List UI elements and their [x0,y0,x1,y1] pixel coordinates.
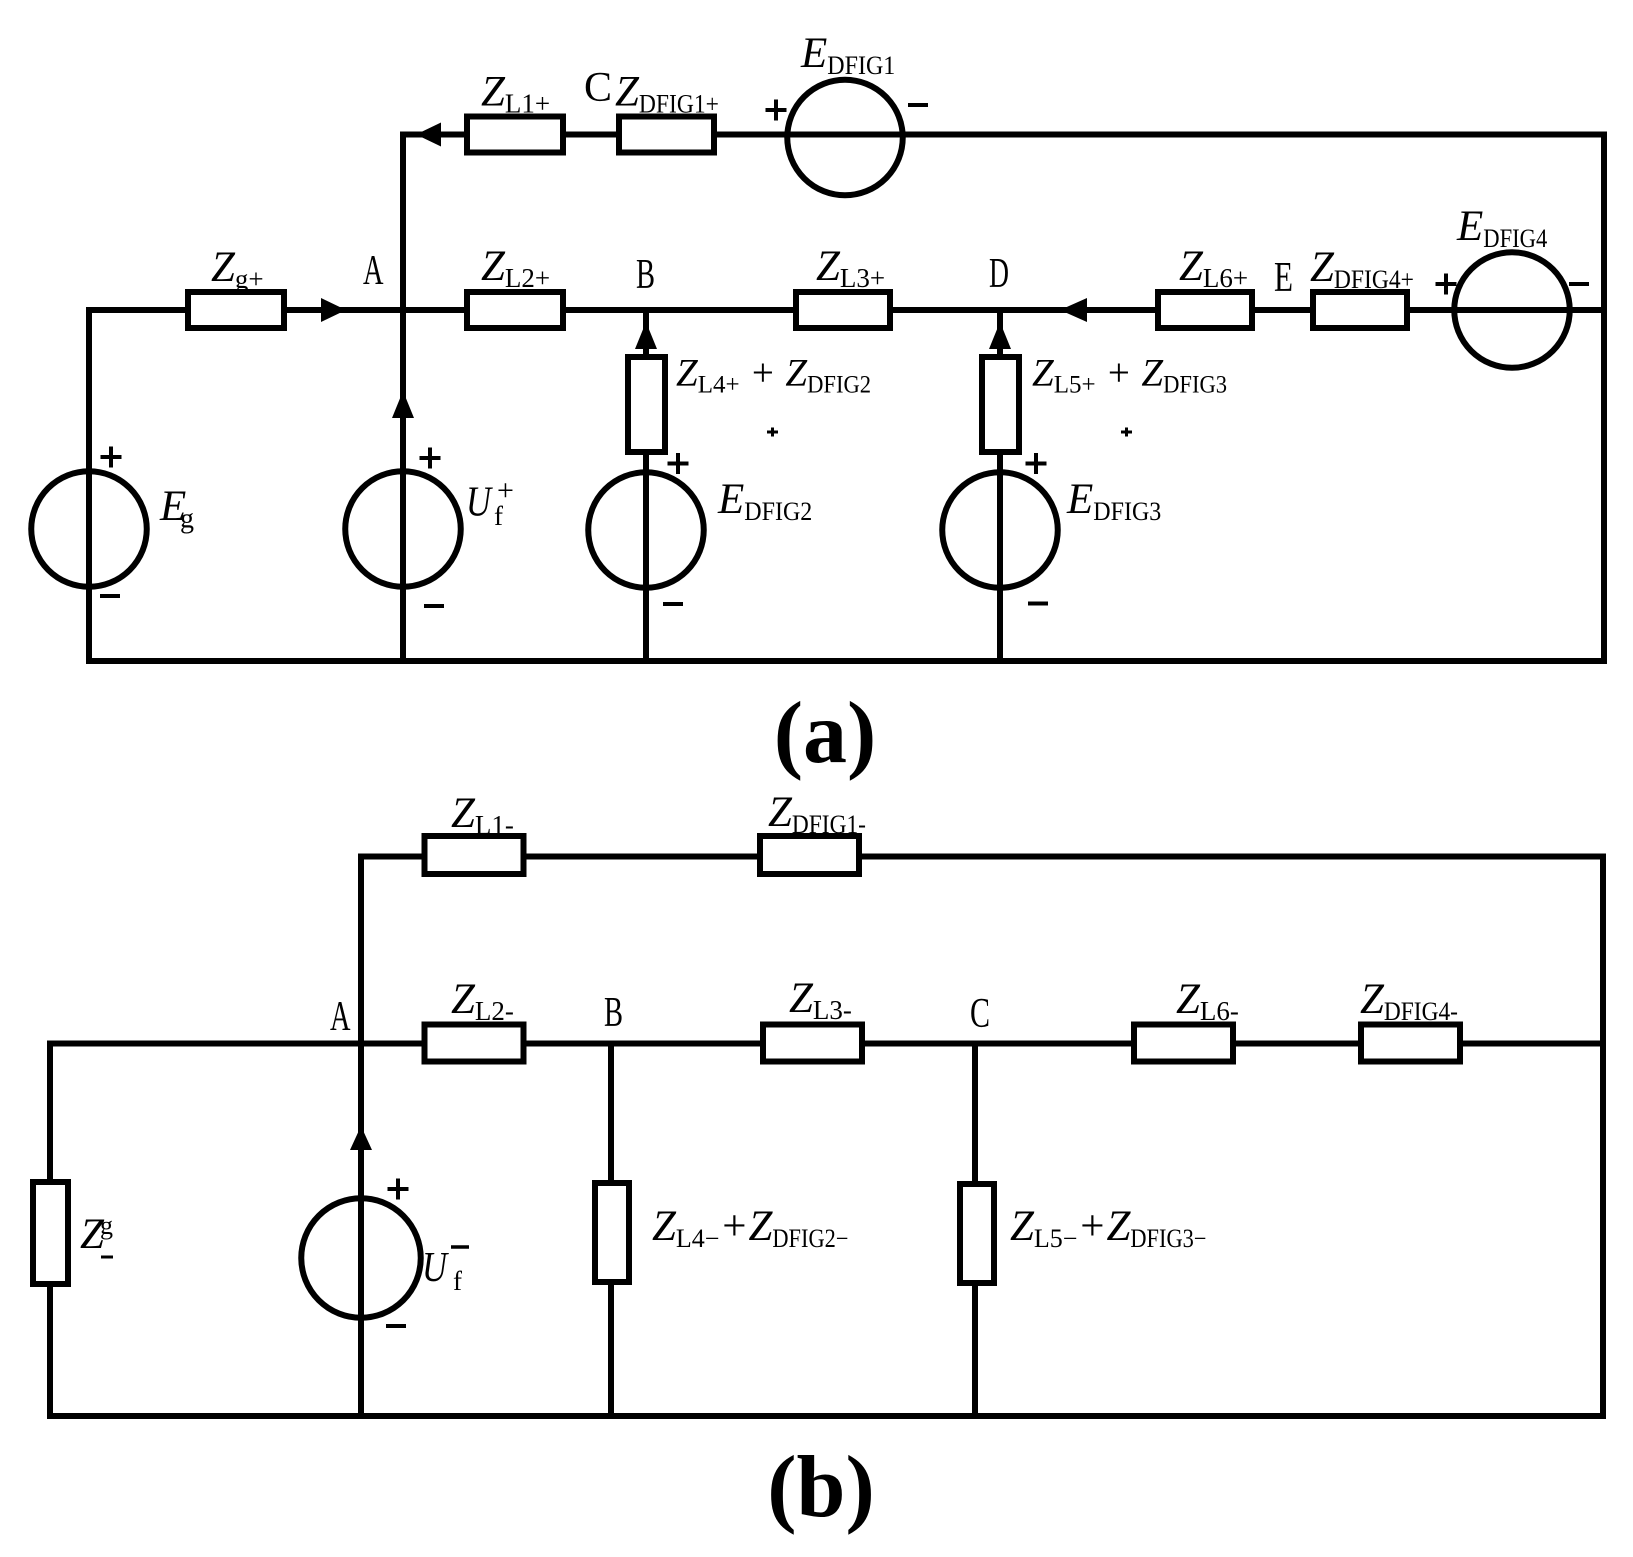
minus of Uf- [386,1324,406,1328]
resistor ZL5+ + ZDFIG3 (vertical at node D) [982,357,1019,452]
resistor ZDFIG4+ [1313,292,1407,328]
svg-text:U: U [466,480,493,526]
small plus above EDFIG2 label [767,428,778,437]
arrow up on node B branch [635,322,657,349]
svg-text:C: C [584,65,612,111]
plus of Uf+ [420,448,441,469]
plus of Uf- [388,1179,409,1200]
wire node A riser (b) [358,857,364,1417]
wire node B branch (b) [608,1044,614,1417]
svg-text:A: A [363,248,384,294]
svg-text:(b): (b) [767,1439,875,1536]
wire left edge (b) [47,1044,53,1417]
arrow right on middle bus after Zg+ [321,298,346,322]
wire node B branch (a) [643,310,649,661]
resistor Zg- (vertical on left edge) [33,1182,68,1284]
wire right edge (b) [1600,857,1606,1417]
source EDFIG1 circle [787,80,903,196]
resistor ZL4+ + ZDFIG2 (vertical at node B) [628,357,665,452]
wire top bus (b) [361,854,1603,860]
resistor ZL1- [425,836,524,874]
source Eg circle [31,471,147,587]
svg-text:B: B [636,252,655,298]
source Uf- circle [301,1198,421,1318]
minus of EDFIG3 [1028,602,1048,606]
small plus above EDFIG3 label [1121,428,1132,437]
resistor ZL3+ [796,292,890,328]
resistor ZL2- [425,1025,524,1062]
wire node D branch (a) [997,310,1003,661]
minus of Uf+ [424,604,444,608]
wire right edge (a) [1601,135,1607,662]
source EDFIG3 circle [942,472,1058,588]
plus of Eg [101,447,122,468]
wire middle bus (a) [89,307,1604,313]
superscript minus of Uf- label [451,1245,469,1249]
wire bottom bus (a) [89,658,1604,664]
wire bottom bus (b) [50,1413,1603,1419]
source Uf+ circle [345,471,461,587]
arrow left on middle bus before ZL6+ [1060,298,1087,322]
resistor ZL1+ [467,117,563,153]
svg-text:(a): (a) [774,685,877,782]
arrow up on node D branch [989,322,1011,349]
wire node A riser (a) [400,135,406,662]
resistor ZDFIG4- [1361,1025,1460,1062]
source EDFIG4 circle [1454,252,1570,368]
svg-text:B: B [604,990,623,1036]
arrow left on top bus (a) [416,123,441,147]
source EDFIG2 circle [588,472,704,588]
plus of EDFIG1 [766,100,787,121]
minus of EDFIG2 [663,602,683,606]
svg-text:A: A [330,994,351,1040]
minus of Eg [100,594,120,598]
resistor Zg+ [188,292,284,328]
wire middle bus (b) [50,1041,1603,1047]
resistor ZL6+ [1158,292,1252,328]
wire top bus (a) from node A riser to right edge [403,132,1604,138]
svg-text:g: g [180,504,194,535]
svg-text:E: E [1274,255,1293,301]
resistor ZL6- [1134,1025,1233,1062]
resistor ZL2+ [467,292,563,328]
minus of EDFIG1 [908,103,928,107]
resistor ZL5- + ZDFIG3- (vertical at node C) [960,1184,994,1283]
wire left edge (a) [86,310,92,661]
svg-text:f: f [453,1266,462,1296]
plus of EDFIG3 [1026,453,1047,474]
resistor ZDFIG1+ [619,117,714,153]
svg-text:f: f [494,501,503,531]
minus of EDFIG4 [1569,282,1589,286]
plus of EDFIG4 [1436,274,1457,295]
resistor ZL4- + ZDFIG2- (vertical at node B) [595,1183,629,1282]
wire node C branch (b) [972,1044,978,1417]
arrow up on node A riser [392,391,414,418]
resistor ZL3- [763,1025,862,1062]
svg-text:U: U [422,1245,449,1291]
svg-text:D: D [989,251,1009,297]
plus of EDFIG2 [668,453,689,474]
svg-text:C: C [970,991,990,1037]
svg-text:g: g [100,1211,113,1240]
resistor ZDFIG1- [760,836,859,874]
arrow up on node A riser (b) [350,1126,372,1150]
